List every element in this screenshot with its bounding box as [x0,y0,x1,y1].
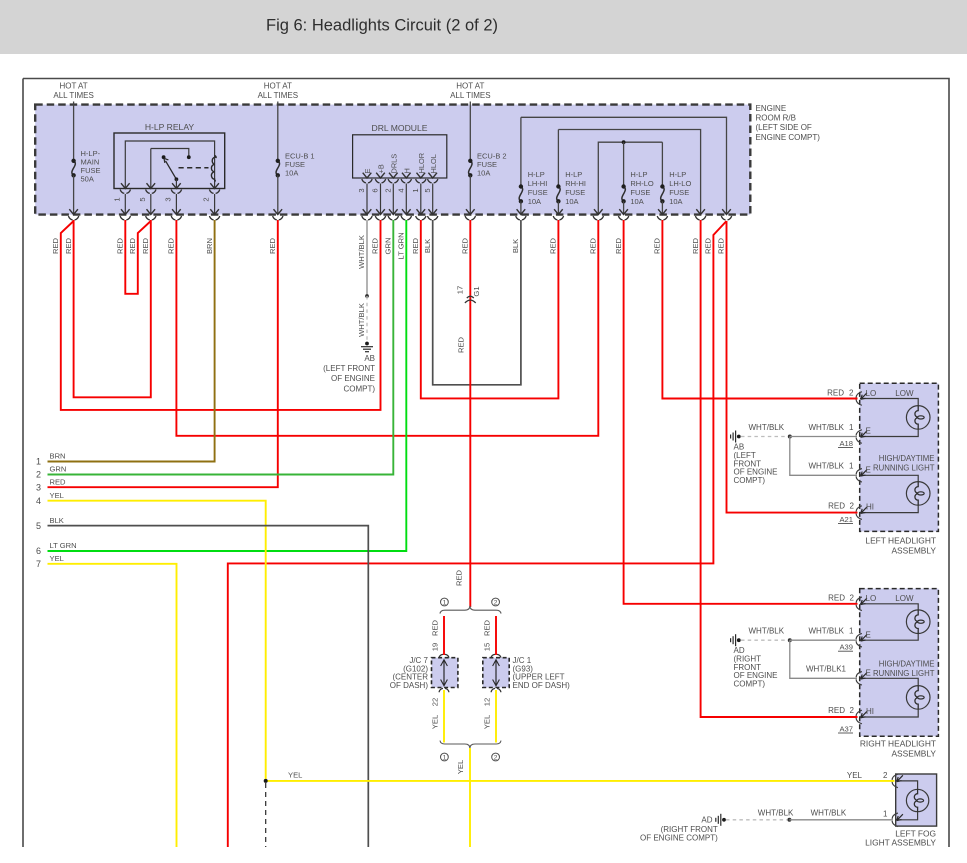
svg-text:WHT/BLK: WHT/BLK [811,809,847,818]
svg-text:AB: AB [364,354,375,363]
wire WHT/BLK splice to E [790,436,857,438]
svg-text:WHT/BLK: WHT/BLK [749,627,785,636]
svg-text:HOT AT: HOT AT [456,82,484,91]
wire RED diagonal branch down-page [228,221,727,863]
svg-text:10A: 10A [565,197,578,206]
fuse H-LP LH-HI 10A [519,187,522,202]
DRL module pin E arrow [363,173,372,178]
svg-text:BLK: BLK [50,516,64,525]
svg-text:RED: RED [455,569,464,586]
svg-text:LEFT HEADLIGHT: LEFT HEADLIGHT [865,536,936,546]
fog connector 2 [892,774,898,788]
relay link dashed [179,167,209,169]
svg-text:10A: 10A [669,197,682,206]
svg-text:LT GRN: LT GRN [397,232,406,259]
wire YEL junction to left fog light [266,780,895,782]
left headlight connector HI A21 [856,506,862,520]
connector exit [69,209,78,214]
wire YEL connector pin4 down to fog junction [48,501,266,781]
svg-text:1: 1 [849,462,854,471]
right headlight HI bulb loop [860,678,918,685]
svg-text:Fig 6: Headlights Circuit (2 o: Fig 6: Headlights Circuit (2 of 2) [266,17,498,35]
svg-text:FUSE: FUSE [528,188,548,197]
svg-text:RUNNING LIGHT: RUNNING LIGHT [873,464,935,473]
wire LH-HI fuse top [520,117,522,185]
wire DRL +B down [380,184,382,214]
svg-text:GRN: GRN [50,465,67,474]
right headlight connector E2 [856,672,862,686]
relay pin3 stub [175,179,177,188]
wire relay pin1 down [124,194,126,214]
wire RED relay pin3 to LO fuse bus [176,220,598,436]
relay switch arm [166,161,177,180]
connector exit [363,209,372,214]
connector exit [121,209,130,214]
svg-text:RED: RED [116,237,125,254]
wire YEL from J/C 7 [443,690,445,743]
svg-text:4: 4 [397,188,406,192]
wire RED to J/C 1 [495,616,497,655]
connector exit [696,209,705,214]
wire RED RH-LO fuse to right headlight LO [624,220,858,604]
wire dashed continuation down [265,783,267,863]
DRL module pin DRLS arrow [389,173,398,178]
svg-text:RED: RED [64,237,73,254]
right headlight connector LO [856,597,862,611]
connector exit [554,209,563,214]
svg-text:RED: RED [691,237,700,254]
svg-text:OF DASH): OF DASH) [390,681,429,690]
wire hot feed 2 [277,102,279,160]
fuse H-LP RH-HI 10A [557,187,560,202]
connector exit [658,209,667,214]
svg-text:RED: RED [268,237,277,254]
svg-text:BLK: BLK [511,239,520,253]
svg-text:AD: AD [701,816,712,825]
svg-text:RED: RED [828,502,845,511]
svg-text:WHT/BLK: WHT/BLK [749,423,785,432]
svg-text:HI: HI [866,707,874,716]
DRL module pin HLOR arrow [417,173,426,178]
svg-text:2: 2 [202,197,211,201]
junction connector J/C 1 [483,658,509,688]
svg-text:(LEFT SIDE OF: (LEFT SIDE OF [756,123,812,132]
node splice right headlight [788,638,792,642]
ground AB DRL module [365,342,369,346]
svg-text:1: 1 [849,627,854,636]
svg-text:LT GRN: LT GRN [50,541,77,550]
svg-text:4: 4 [36,496,41,506]
relay arm pivot [175,177,179,181]
svg-text:H-LP: H-LP [528,170,545,179]
svg-text:RED: RED [411,237,420,254]
bottom white margin [0,847,967,863]
svg-text:LH-LO: LH-LO [669,179,691,188]
svg-text:WHT/BLK: WHT/BLK [357,303,366,337]
svg-text:2: 2 [850,594,855,603]
wire WHT/BLK splice down to E2 right [790,640,857,678]
left fog light assembly box [896,774,937,826]
svg-text:5: 5 [36,521,41,531]
node splice E wire [365,294,369,298]
wire BLK HLOL to LH-HI fuse [433,220,521,385]
wire LH-LO fuse bottom [661,201,663,213]
wire DRL E down [366,184,368,214]
svg-text:RED: RED [704,237,713,254]
svg-text:3: 3 [357,188,366,192]
fuse H-LP-MAIN 50A [72,161,75,176]
connector exit [389,209,398,214]
right headlight connector HI A37 [856,710,862,724]
svg-text:YEL: YEL [431,715,440,729]
svg-text:DRL MODULE: DRL MODULE [371,123,427,133]
wire BRN relay pin2 to connector pin1 [48,220,215,462]
node circled 2 top [492,598,500,606]
wire RED ECU-B2 down to junction splitter [469,220,471,607]
wire LH-LO fuse top [661,142,663,185]
wire RED HLOR to RH-HI fuse [421,220,559,398]
connector exit [147,209,156,214]
wire WHT/BLK splice to E right [790,639,857,641]
wire hot feed 1 [73,102,75,160]
wire RED right exit to right headlight HI [701,220,858,717]
svg-text:10A: 10A [528,197,541,206]
svg-text:H-LP: H-LP [565,170,582,179]
left headlight HI bulb loop [860,475,918,481]
fuse H-LP LH-LO 10A [661,187,664,202]
DRL module pin HLOL arrow [428,173,437,178]
svg-text:RED: RED [483,619,492,636]
svg-text:ASSEMBLY: ASSEMBLY [891,749,936,759]
svg-text:H-LP: H-LP [630,170,647,179]
wire WHT/BLK splice down to E2 [790,437,857,476]
node splice left headlight [788,435,792,439]
svg-text:BLK: BLK [423,239,432,253]
right headlight LOW bulb loop [860,604,918,610]
bulb left LOW [906,406,930,430]
svg-text:RED: RED [141,237,150,254]
wire WHT/BLK dashed AB to splice [741,436,788,438]
svg-text:2: 2 [883,771,888,780]
svg-text:HLOL: HLOL [429,154,438,173]
svg-text:DRLS: DRLS [389,154,398,174]
svg-text:HIGH/DAYTIME: HIGH/DAYTIME [879,659,935,668]
relay pin arrow [147,183,156,188]
svg-text:A21: A21 [839,515,853,524]
wire ECU-B2 fuse to exit [469,175,471,213]
svg-text:E: E [866,465,871,474]
relay fixed contact [187,155,191,159]
svg-text:+B: +B [377,164,386,173]
svg-text:LO: LO [866,594,877,603]
engine room R/B box [35,105,750,215]
svg-text:ALL TIMES: ALL TIMES [450,91,490,100]
left headlight connector LO [856,392,862,406]
svg-text:3: 3 [164,197,173,201]
svg-text:OF ENGINE: OF ENGINE [331,374,375,383]
title bar [0,0,967,54]
node circled 1 bottom [441,753,449,761]
ground AB left headlight [737,435,741,439]
bulb left fog [906,789,928,811]
wire RH-HI fuse top [557,130,559,185]
svg-text:6: 6 [36,546,41,556]
connector exit [428,209,437,214]
svg-text:RED: RED [431,619,440,636]
bus wire RH-HI fuse to right exit [558,130,700,214]
svg-text:FUSE: FUSE [669,188,689,197]
svg-text:COMPT): COMPT) [734,680,766,689]
svg-text:YEL: YEL [50,491,64,500]
node splice fog [787,818,791,822]
svg-text:HIGH/DAYTIME: HIGH/DAYTIME [879,454,935,463]
DRL module pin +B arrow [376,173,385,178]
svg-text:17: 17 [456,286,465,294]
svg-text:2: 2 [494,754,498,761]
svg-text:RED: RED [167,237,176,254]
svg-text:1: 1 [443,754,447,761]
wire WHT/BLK splice to fog 1 [789,819,893,821]
connector exit [172,209,181,214]
wire WHT/BLK fog ground to splice [722,818,726,822]
wire RED to J/C 7 [443,616,445,655]
svg-text:1: 1 [411,188,420,192]
bulb left HI [906,482,930,506]
svg-text:2: 2 [384,188,393,192]
svg-text:22: 22 [431,698,440,706]
bus wire LO fuses [598,142,662,213]
relay pin arrow [121,183,130,188]
connector exit [402,209,411,214]
wire LT GRN H to connector pin6 [48,220,407,551]
svg-text:E: E [866,427,871,436]
relay coil [211,156,216,182]
svg-text:LH-HI: LH-HI [528,179,548,188]
svg-text:BRN: BRN [50,452,66,461]
svg-text:3: 3 [36,482,41,492]
svg-text:END OF DASH): END OF DASH) [513,681,571,690]
J/C 1 internal arrow [495,661,497,685]
wire RH-LO fuse top [623,142,625,185]
right headlight connector E A39 [856,633,862,647]
connector exit [210,209,219,214]
connector exit [417,209,426,214]
svg-text:RH-HI: RH-HI [565,179,586,188]
svg-text:1: 1 [883,810,888,819]
svg-text:RED: RED [50,477,67,486]
wire WHT/BLK DRL E to ground AB [366,220,368,296]
svg-text:1: 1 [36,457,41,467]
relay contact rail [151,149,189,156]
wire BLK connector pin5 down off-page [48,526,369,863]
svg-text:A37: A37 [839,725,853,734]
svg-text:LOW: LOW [895,389,914,398]
left headlight LOW bulb loop [860,399,918,406]
left headlight assembly box [860,383,939,531]
relay pin arrow [172,183,181,188]
wire DRL HLOR down [420,184,422,214]
svg-text:YEL: YEL [847,771,863,780]
svg-text:ROOM R/B: ROOM R/B [756,114,796,123]
svg-text:A39: A39 [839,643,853,652]
svg-text:2: 2 [36,470,41,480]
right headlight assembly box [860,589,939,737]
connector exit [594,209,603,214]
svg-text:G1: G1 [472,286,481,296]
wire RH-HI fuse bottom [557,201,559,213]
svg-text:LO: LO [866,389,877,398]
svg-text:1: 1 [443,599,447,606]
brace combiner bottom [440,741,501,749]
brace splitter top [440,606,501,614]
connector exit [466,209,475,214]
ground AD right headlight [737,638,741,642]
svg-text:19: 19 [431,643,440,651]
fog connector 1 [892,813,898,827]
connector exit [274,209,283,214]
svg-text:2: 2 [849,388,854,397]
svg-text:HI: HI [866,503,874,512]
bulb right HI [906,686,930,710]
wire RH-LO fuse bottom [623,201,625,213]
connector exit [619,209,628,214]
svg-text:15: 15 [483,643,492,651]
svg-text:RED: RED [461,237,470,254]
svg-text:GRN: GRN [384,238,393,255]
J/C 7 internal arrow [443,661,445,685]
connector exit [517,209,526,214]
svg-text:RED: RED [51,237,60,254]
svg-text:COMPT): COMPT) [343,384,375,393]
svg-text:ENGINE: ENGINE [756,104,787,113]
svg-text:RED: RED [653,237,662,254]
svg-text:RED: RED [828,706,845,715]
wire RED main fuse branch left [61,220,381,410]
svg-text:YEL: YEL [483,715,492,729]
wire YEL combiner stem down off-page [469,748,471,863]
svg-text:WHT/BLK: WHT/BLK [758,809,794,818]
wire WHT/BLK dashed AD to splice [741,639,788,641]
svg-text:HOT AT: HOT AT [60,82,88,91]
relay pin arrow [210,183,219,188]
svg-text:7: 7 [36,559,41,569]
wire relay pin2 down [214,194,216,214]
relay inner frame / pin1 pin2 wires [125,141,214,189]
svg-text:1: 1 [112,197,121,201]
svg-text:LOW: LOW [895,594,914,603]
svg-text:WHT/BLK1: WHT/BLK1 [806,665,847,674]
svg-text:LIGHT ASSEMBLY: LIGHT ASSEMBLY [865,838,936,848]
svg-text:5: 5 [423,188,432,192]
svg-text:ASSEMBLY: ASSEMBLY [891,546,936,556]
svg-text:YEL: YEL [456,760,465,774]
wire WHT/BLK dashed to ground [366,296,368,341]
svg-text:12: 12 [483,698,492,706]
DRL module pin H arrow [402,173,411,178]
svg-text:FUSE: FUSE [630,188,650,197]
wire GRN DRLS to connector pin2 [48,220,394,475]
node LO bus junction [622,140,626,144]
svg-text:RED: RED [827,388,844,397]
wire RED relay pin1 jumper [125,220,151,294]
connector 17 G1 on ECU-B2 wire [465,296,476,303]
svg-text:10A: 10A [630,197,643,206]
wire DRL H down [405,184,407,214]
svg-text:H-LP RELAY: H-LP RELAY [145,122,195,132]
svg-text:WHT/BLK: WHT/BLK [808,462,844,471]
svg-text:1: 1 [849,423,854,432]
svg-text:E: E [866,630,871,639]
wire ECU-B1 fuse to exit [277,175,279,213]
svg-text:RED: RED [128,237,137,254]
wire RED LH-LO fuse to left headlight LO [662,220,857,399]
svg-text:RED: RED [371,237,380,254]
svg-text:RED: RED [589,237,598,254]
svg-text:10A: 10A [477,169,490,178]
fuse ECU-B 1 10A [276,161,279,176]
svg-text:WHT/BLK: WHT/BLK [808,423,844,432]
svg-text:HLOR: HLOR [417,153,426,174]
wire YEL from J/C 1 [495,690,497,743]
svg-text:(LEFT FRONT: (LEFT FRONT [323,364,375,373]
svg-text:HOT AT: HOT AT [264,82,292,91]
svg-text:RH-LO: RH-LO [630,179,654,188]
svg-text:ENGINE COMPT): ENGINE COMPT) [756,133,821,142]
wire RED ECU-B1 to connector pin3 [48,220,278,487]
bus wire LH-HI fuse to right exit [521,117,727,213]
wire DRL HLOL down [432,184,434,214]
connector exit [376,209,385,214]
svg-text:A18: A18 [839,439,853,448]
node circled 2 bottom [492,753,500,761]
svg-text:WHT/BLK: WHT/BLK [357,235,366,269]
svg-text:5: 5 [138,197,147,201]
wire YEL connector pin7 down off-page [48,564,177,863]
svg-text:RUNNING LIGHT: RUNNING LIGHT [873,669,935,678]
svg-text:2: 2 [494,599,498,606]
svg-text:E: E [866,668,871,677]
wire DRL DRLS down [392,184,394,214]
svg-text:COMPT): COMPT) [734,476,766,485]
left headlight connector E A18 [856,430,862,444]
svg-text:FUSE: FUSE [565,188,585,197]
wire relay pin3 down [175,194,177,214]
bulb right LOW [906,610,930,634]
svg-text:WHT/BLK: WHT/BLK [808,627,844,636]
svg-text:H-LP: H-LP [669,170,686,179]
wire RED main fuse to relay pin5 [74,220,151,397]
svg-text:RIGHT HEADLIGHT: RIGHT HEADLIGHT [860,739,936,749]
wire H-LP-MAIN fuse to exit [73,175,75,213]
svg-text:ALL TIMES: ALL TIMES [53,91,93,100]
left headlight connector E2 [856,469,862,483]
wire hot feed 3 [469,102,471,160]
wire LH-HI fuse bottom [520,201,522,213]
wire RED right exit to left headlight HI [727,221,858,513]
svg-text:OF ENGINE COMPT): OF ENGINE COMPT) [640,833,718,842]
svg-text:6: 6 [371,188,380,192]
svg-text:10A: 10A [285,169,298,178]
svg-text:2: 2 [850,706,855,715]
relay pin5 wire [150,149,152,189]
connector exit [722,209,731,214]
svg-text:RED: RED [614,237,623,254]
svg-text:2: 2 [850,502,855,511]
svg-text:RED: RED [457,336,466,353]
fog light bulb loop [896,781,918,790]
svg-text:RED: RED [717,237,726,254]
relay fixed contact left [162,155,166,159]
